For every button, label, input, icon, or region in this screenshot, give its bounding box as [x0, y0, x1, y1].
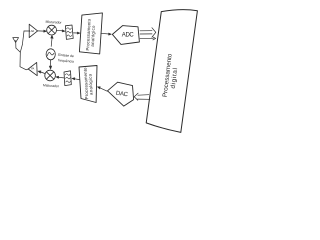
- wire F2 to M2 with left arrowhead: [56, 76, 64, 78]
- bus arrow digital to DAC (hollow double-line arrow): [134, 93, 150, 100]
- label Sintese de frequencia: [57, 53, 75, 64]
- mixer M1: [47, 25, 57, 35]
- oscillator OSC1 (sintese de frequencia): [46, 49, 55, 60]
- antenna ANT1: [13, 38, 19, 48]
- amplifier A1 (LNA): [29, 24, 37, 37]
- block U2 Processamento analogico (transmit): [79, 66, 97, 103]
- svg-text:frequência: frequência: [58, 58, 74, 63]
- wire analog to ADC with arrowhead: [101, 33, 112, 35]
- svg-text:PA: PA: [31, 68, 34, 71]
- bus arrow ADC to digital (hollow double-line arrow): [140, 28, 156, 38]
- amplifier A2 (PA): [28, 62, 37, 75]
- wire DAC to analog2 with left arrowhead: [97, 87, 107, 92]
- svg-text:Misturador: Misturador: [45, 20, 62, 25]
- svg-text:Misturador: Misturador: [43, 83, 60, 88]
- svg-text:Síntese de: Síntese de: [57, 53, 74, 58]
- ADC converter block: [112, 26, 139, 45]
- wire OSC1 to M2 with down arrowhead: [49, 60, 52, 70]
- wire ADC to digital (line with small arrowhead): [140, 37, 156, 40]
- wire F1 to analog block with arrowhead: [73, 32, 80, 34]
- wire bus (antenna feed, receive/transmit split): [20, 31, 28, 70]
- svg-text:ADC: ADC: [122, 32, 135, 38]
- wire antenna to bus: [16, 48, 20, 52]
- wire bus to amplifier A1 input: [24, 30, 29, 32]
- mixer M2: [45, 70, 56, 81]
- wire M1 to filter F1 with arrowhead: [57, 30, 66, 32]
- wire analog2 to F2 with left arrowhead: [72, 78, 80, 80]
- DAC converter block: [108, 82, 134, 106]
- block U3 Processamento digital: [146, 10, 197, 133]
- filter F2 (band-pass): [64, 71, 71, 86]
- svg-text:LNA: LNA: [30, 30, 35, 33]
- block U1 Processamento analogico (receive): [79, 13, 102, 54]
- filter F1 (band-pass): [65, 25, 73, 39]
- wire M2 to amplifier A2 with left arrowhead: [38, 71, 45, 74]
- wire OSC1 to M1 with up arrowhead: [51, 35, 54, 46]
- wire A1 to mixer M1 with arrowhead: [38, 30, 47, 32]
